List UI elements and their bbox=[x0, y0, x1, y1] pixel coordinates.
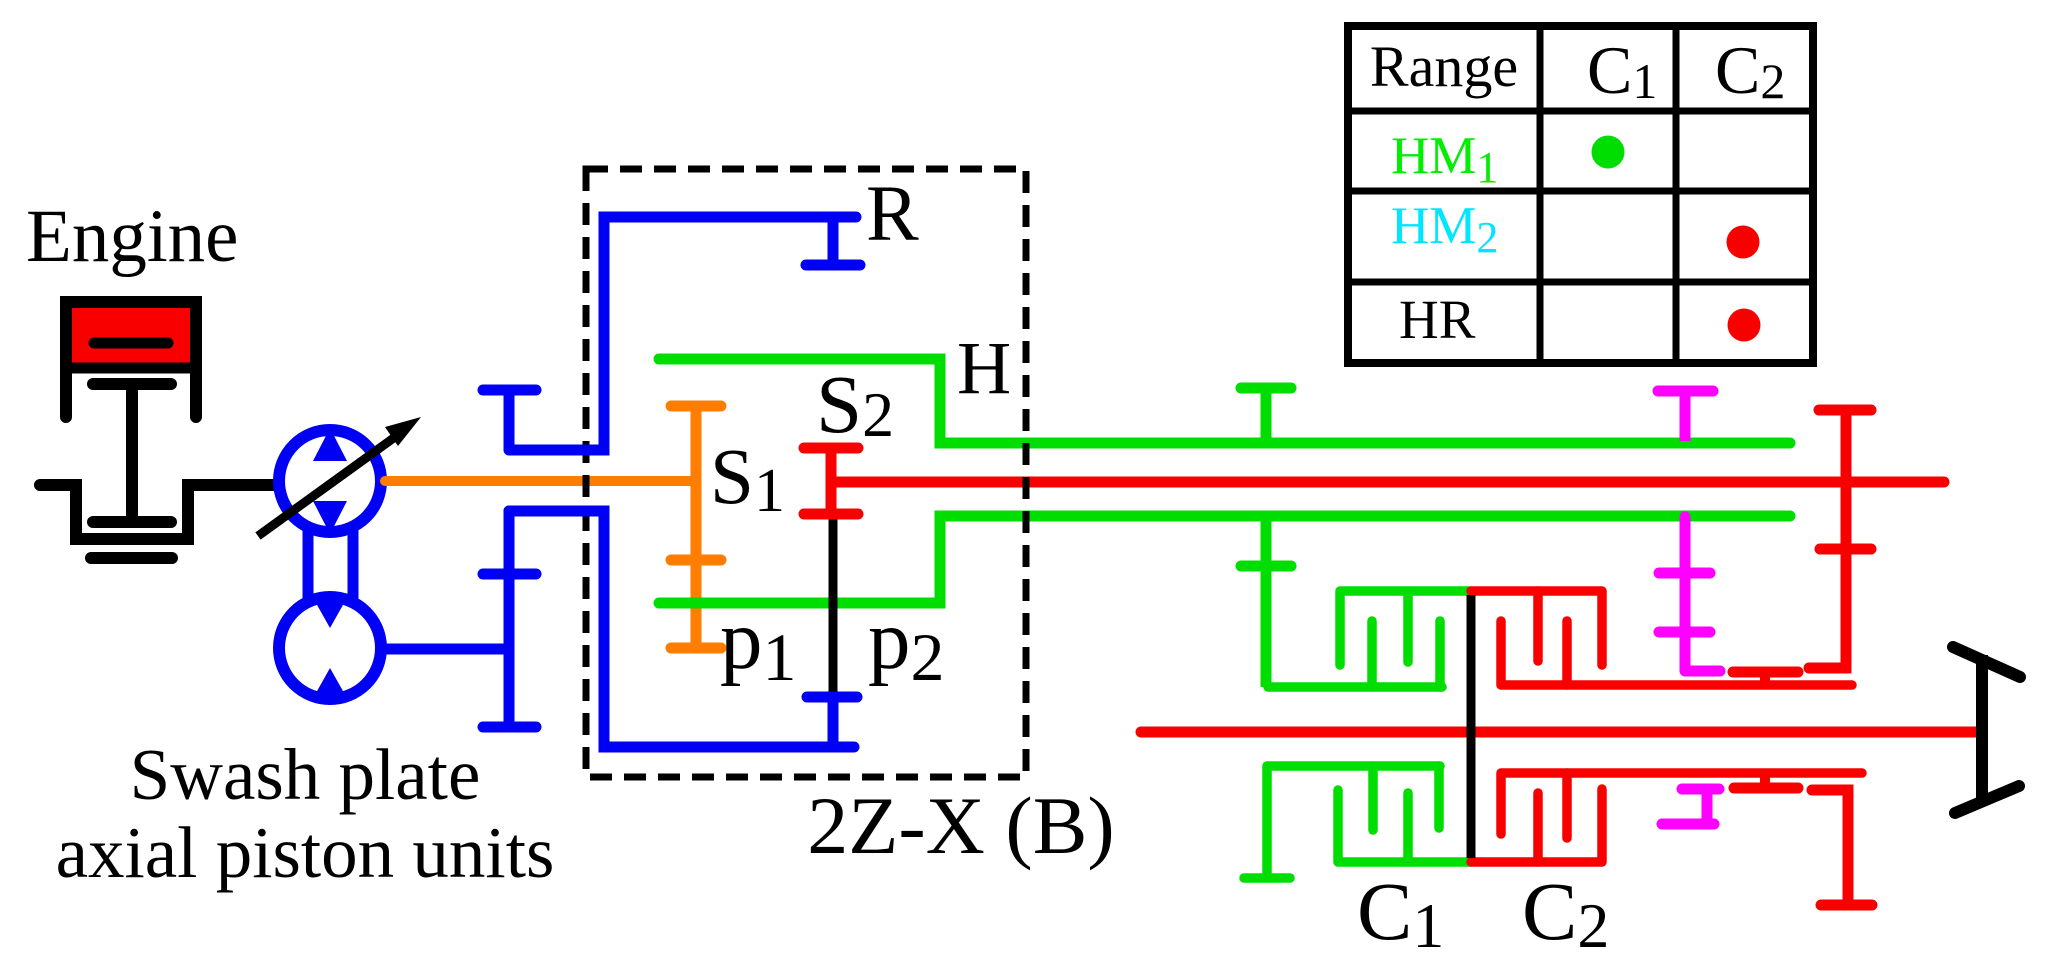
clutch hub black line bbox=[1467, 595, 1476, 858]
sun gear S2 red bbox=[804, 448, 858, 514]
sun gear S1 orange bbox=[671, 406, 721, 648]
red dot HM2-C2 bbox=[1727, 226, 1760, 259]
svg-text:HM1: HM1 bbox=[1391, 127, 1498, 192]
label 2Z-X (B) bbox=[807, 780, 1114, 871]
label S1 bbox=[710, 434, 785, 525]
engine piston rod bbox=[93, 384, 171, 522]
svg-text:HM2: HM2 bbox=[1391, 197, 1498, 262]
blue input coupling lower gear shaft bbox=[483, 511, 536, 727]
svg-text:HR: HR bbox=[1399, 289, 1476, 350]
blue input coupling upper gear bbox=[483, 390, 536, 450]
clutch C2 upper inner plates bbox=[1471, 591, 1602, 665]
magenta idler gear top bbox=[1658, 391, 1713, 441]
red mesh cap below output drum bbox=[1734, 773, 1798, 788]
svg-text:C1: C1 bbox=[1357, 865, 1444, 961]
svg-text:Range: Range bbox=[1370, 34, 1518, 99]
table header Range bbox=[1370, 34, 1518, 99]
clutch C1 lower inner plates bbox=[1338, 790, 1471, 862]
svg-text:axial piston units: axial piston units bbox=[56, 812, 555, 893]
orange input shaft bbox=[385, 476, 696, 486]
dashed box 2Z-X bbox=[586, 169, 1026, 777]
label p2 bbox=[868, 593, 945, 695]
svg-text:S2: S2 bbox=[816, 358, 894, 450]
green dot HM1-C1 bbox=[1592, 136, 1625, 169]
label Engine bbox=[26, 195, 238, 278]
carrier H green frame bottom bbox=[659, 516, 1790, 603]
table header C1 bbox=[1587, 32, 1657, 109]
label R bbox=[866, 171, 919, 258]
engine crankcase bbox=[40, 485, 274, 539]
planet pinion p2 black shaft bbox=[829, 519, 838, 692]
label C1 bbox=[1357, 865, 1444, 961]
engine piston cylinder bbox=[66, 302, 196, 417]
clutch C1 upper outer drum bbox=[1268, 621, 1442, 687]
label Swash plate axial piston units bbox=[56, 734, 555, 893]
ring gear R blue frame bbox=[509, 217, 856, 747]
svg-text:H: H bbox=[957, 327, 1011, 410]
green gear shaft down to clutch C1 bbox=[1241, 516, 1291, 687]
red gear shaft right bbox=[1809, 410, 1871, 668]
svg-text:Engine: Engine bbox=[26, 195, 238, 278]
output shaft red bbox=[1141, 727, 1980, 738]
table row HM2 bbox=[1391, 197, 1498, 262]
label S2 bbox=[816, 358, 894, 450]
clutch C2 lower inner plates bbox=[1471, 789, 1602, 862]
svg-text:Swash plate: Swash plate bbox=[130, 734, 481, 815]
hydraulic lines between pump and motor bbox=[308, 528, 353, 600]
magenta gear shaft lower bbox=[1659, 517, 1720, 671]
hydraulic motor circle bbox=[279, 596, 381, 700]
red output gear lower right bbox=[1812, 790, 1872, 905]
label C2 bbox=[1522, 865, 1609, 961]
label p1 bbox=[720, 593, 797, 695]
magenta gear stub below output drum bbox=[1662, 789, 1719, 824]
svg-text:C2: C2 bbox=[1715, 32, 1785, 109]
engine ground bar bbox=[91, 552, 172, 564]
table header C2 bbox=[1715, 32, 1785, 109]
red shaft from S2 bbox=[831, 477, 1944, 488]
p2 lower blue mesh stub bbox=[807, 697, 857, 747]
carrier H green frame top bbox=[659, 359, 1790, 443]
motor output shaft blue line bbox=[381, 644, 509, 655]
svg-text:R: R bbox=[866, 171, 919, 258]
clutch C1 lower outer drum bbox=[1244, 766, 1440, 878]
table row HR bbox=[1399, 289, 1476, 350]
clutch C1 upper inner plates bbox=[1340, 591, 1471, 665]
red mesh cap above C2 drum bbox=[1733, 672, 1798, 685]
range table frame bbox=[1348, 26, 1813, 363]
clutch C2 upper outer drum bbox=[1501, 621, 1852, 685]
svg-text:C1: C1 bbox=[1587, 32, 1657, 109]
red dot HR-C2 bbox=[1728, 309, 1761, 342]
svg-text:C2: C2 bbox=[1522, 865, 1609, 961]
label H bbox=[957, 327, 1011, 410]
svg-text:S1: S1 bbox=[710, 434, 785, 525]
svg-text:2Z-X (B): 2Z-X (B) bbox=[807, 780, 1114, 871]
ring gear R mesh stub bbox=[806, 217, 860, 265]
hydraulic pump circle (variable) bbox=[279, 428, 381, 534]
variable displacement arrow bbox=[258, 417, 421, 536]
table row HM1 bbox=[1391, 127, 1498, 192]
green idler gear on carrier shafts bbox=[1241, 388, 1291, 443]
output load symbol black bbox=[1953, 647, 2020, 813]
clutch C2 lower outer drum bbox=[1501, 773, 1862, 838]
